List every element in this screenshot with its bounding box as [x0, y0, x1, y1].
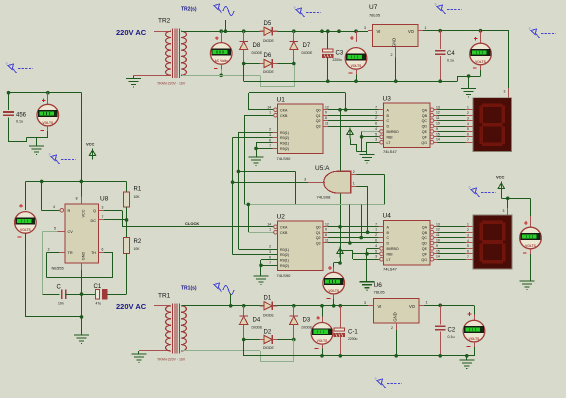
svg-text:7: 7	[375, 222, 377, 226]
svg-text:?: ?	[469, 186, 471, 190]
svg-text:2: 2	[391, 326, 393, 330]
svg-text:2: 2	[375, 116, 377, 120]
svg-text:4: 4	[375, 127, 377, 131]
svg-text:5: 5	[467, 244, 469, 248]
wire CKB down to mid bus	[244, 115, 273, 117]
svg-text:QD: QD	[422, 125, 428, 129]
svg-text:D: D	[387, 242, 390, 246]
probe right mid	[471, 188, 480, 197]
capacitor C2	[438, 304, 442, 308]
svg-text:QC: QC	[422, 236, 428, 240]
svg-text:7: 7	[467, 255, 469, 259]
svg-text:VOLTS: VOLTS	[525, 244, 537, 248]
wire D-line vertical	[349, 204, 351, 243]
probe top-right 1	[437, 5, 446, 14]
wire centre ground drop	[81, 294, 83, 335]
svg-text:7: 7	[102, 215, 104, 219]
wire U2.Q to U4 inputs	[328, 226, 379, 228]
svg-text:9: 9	[325, 228, 327, 232]
svg-text:4: 4	[467, 122, 469, 126]
svg-text:D5: D5	[264, 21, 272, 27]
diode D7	[292, 29, 296, 33]
wire U6 output	[424, 305, 474, 307]
svg-text:R9(2): R9(2)	[280, 147, 289, 151]
wire 555 DC pin	[99, 219, 105, 221]
wire C-line vertical	[361, 204, 363, 237]
resistor R1	[126, 181, 128, 192]
svg-text:1: 1	[353, 181, 355, 185]
svg-text:CV: CV	[68, 230, 74, 234]
svg-text:C2: C2	[448, 328, 456, 334]
svg-text:TH: TH	[91, 251, 96, 255]
svg-text:10: 10	[436, 122, 440, 126]
svg-text:4: 4	[375, 244, 377, 248]
svg-text:456: 456	[16, 113, 27, 119]
svg-text:11: 11	[325, 239, 329, 243]
svg-text:2: 2	[467, 111, 469, 115]
svg-text:74LS08: 74LS08	[317, 195, 332, 200]
svg-text:6: 6	[269, 139, 271, 143]
svg-text:4: 4	[467, 239, 469, 243]
wire step to D6-D7 junction	[260, 75, 262, 87]
svg-text:6: 6	[467, 250, 469, 254]
wire TR1 secondary bottom step	[182, 350, 260, 352]
svg-text:R9(1): R9(1)	[280, 259, 289, 263]
diode D8	[242, 29, 246, 33]
diode D6	[244, 63, 260, 65]
svg-text:QC: QC	[422, 119, 428, 123]
svg-text:VI: VI	[378, 304, 382, 309]
voltmeter mid (U6 input)	[328, 266, 332, 270]
diode D4	[242, 304, 246, 308]
wire U2 R0(1)	[238, 171, 240, 249]
wire TR1 secondary top rail	[182, 305, 368, 307]
svg-text:D2: D2	[264, 329, 272, 335]
svg-text:CLOCK: CLOCK	[185, 221, 199, 226]
svg-text:C-1: C-1	[348, 330, 358, 336]
svg-text:14: 14	[436, 138, 440, 142]
svg-text:DIODE: DIODE	[263, 70, 274, 74]
svg-text:Q3: Q3	[316, 125, 321, 129]
ground U6 area	[360, 282, 375, 291]
svg-text:TR1: TR1	[158, 293, 171, 300]
svg-text:220V AC: 220V AC	[116, 28, 147, 37]
svg-text:?: ?	[375, 377, 377, 381]
svg-text:QA: QA	[422, 225, 428, 229]
svg-text:QE: QE	[422, 247, 428, 251]
capacitor 456	[8, 93, 10, 110]
wire 555 reset pin	[41, 181, 43, 210]
wire CLOCK net	[122, 226, 273, 228]
svg-text:TRAN-220V - 16V: TRAN-220V - 16V	[157, 357, 186, 361]
svg-text:VOLTS: VOLTS	[351, 64, 363, 68]
svg-text:Q: Q	[93, 209, 96, 213]
svg-text:Q2: Q2	[316, 119, 321, 123]
voltmeter bottom-right	[474, 305, 476, 314]
svg-text:U5:A: U5:A	[315, 165, 330, 172]
regulator U6 78L05	[374, 299, 420, 324]
svg-text:VOLTS: VOLTS	[469, 337, 481, 341]
svg-text:R0(1): R0(1)	[280, 248, 289, 252]
svg-text:1: 1	[467, 106, 469, 110]
svg-text:D1: D1	[264, 296, 272, 302]
svg-text:1: 1	[467, 223, 469, 227]
wire long vertical Q0 column	[340, 110, 342, 263]
svg-text:QF: QF	[422, 252, 428, 256]
svg-text:15: 15	[436, 249, 440, 253]
voltmeter left edge	[19, 204, 23, 208]
wire 555 GND pin	[81, 263, 83, 270]
svg-text:2: 2	[375, 233, 377, 237]
svg-text:DIODE: DIODE	[263, 346, 274, 350]
ground 555 section	[74, 335, 89, 344]
svg-text:D3: D3	[303, 318, 311, 324]
svg-text:Q3: Q3	[316, 242, 321, 246]
svg-text:QD: QD	[422, 242, 428, 246]
wire CKA feedback	[249, 109, 273, 111]
svg-text:10K: 10K	[134, 247, 141, 251]
svg-text:?: ?	[49, 153, 51, 157]
wire 555 TH pin	[99, 252, 105, 254]
svg-text:U1: U1	[277, 97, 286, 104]
probe stub TR1	[230, 293, 232, 306]
svg-text:1: 1	[269, 111, 271, 115]
svg-text:13: 13	[436, 105, 440, 109]
wire gate input2 loop	[357, 174, 385, 176]
wire arrow column to meter net	[338, 261, 342, 265]
ground U1 R9	[249, 157, 264, 166]
svg-text:CKB: CKB	[280, 231, 288, 235]
power arrow U3 BI/RBO	[347, 128, 353, 139]
wire vertical to 555 VCC	[81, 93, 83, 182]
svg-text:2: 2	[48, 247, 50, 251]
svg-text:78L05: 78L05	[369, 13, 381, 18]
svg-text:VCC: VCC	[82, 209, 86, 217]
svg-text:15: 15	[436, 132, 440, 136]
voltmeter right of display2	[530, 216, 532, 227]
svg-text:U3: U3	[383, 96, 392, 103]
svg-text:U2: U2	[277, 214, 286, 221]
voltmeter top-left	[47, 93, 49, 105]
probe top-left	[8, 64, 17, 73]
wire bus to U2 CKB	[248, 204, 250, 232]
wire 555 Q output	[99, 210, 105, 212]
svg-text:3: 3	[364, 301, 366, 305]
svg-text:11: 11	[436, 233, 440, 237]
wire VCC to meter right	[530, 198, 532, 216]
wire U4 LT zigzag to VCC arrow	[353, 259, 379, 261]
svg-text:TR2(s): TR2(s)	[181, 7, 197, 13]
wire timing cap rail	[43, 294, 60, 296]
diode D1	[264, 302, 272, 310]
svg-text:2: 2	[467, 228, 469, 232]
svg-text:6: 6	[375, 239, 377, 243]
svg-text:VOLTS: VOLTS	[42, 121, 54, 125]
svg-text:D7: D7	[303, 43, 311, 49]
svg-text:3: 3	[375, 255, 377, 259]
svg-text:GND: GND	[392, 38, 397, 47]
svg-text:Q1: Q1	[316, 114, 321, 118]
svg-text:7: 7	[269, 144, 271, 148]
svg-text:3: 3	[364, 26, 366, 30]
svg-text:R0(1): R0(1)	[280, 131, 289, 135]
svg-text:5: 5	[54, 226, 56, 230]
svg-text:AC Volts: AC Volts	[214, 59, 228, 63]
wire negative rail bottom section	[243, 340, 245, 356]
svg-text:R2: R2	[134, 239, 142, 245]
svg-text:3: 3	[269, 133, 271, 137]
svg-text:8: 8	[325, 233, 327, 237]
capacitor C3	[326, 29, 330, 33]
wire to left meter	[25, 181, 27, 210]
svg-text:CKA: CKA	[280, 108, 288, 112]
voltmeter top-right	[479, 29, 483, 33]
svg-text:Q0: Q0	[316, 108, 321, 112]
diode D5	[264, 27, 272, 35]
svg-text:TR1(s): TR1(s)	[181, 286, 197, 292]
svg-text:14: 14	[267, 222, 271, 226]
svg-text:R9(2): R9(2)	[280, 264, 289, 268]
wire VCC to display 2	[501, 193, 503, 199]
wire U4 BI/RBO cluster	[367, 248, 379, 250]
svg-text:7: 7	[375, 105, 377, 109]
svg-text:DIODE: DIODE	[252, 326, 263, 330]
voltmeter across C-1	[320, 304, 324, 308]
svg-text:0.1u: 0.1u	[447, 59, 454, 63]
svg-text:RBI: RBI	[387, 135, 393, 139]
svg-text:DIODE: DIODE	[252, 51, 263, 55]
svg-text:VOLTS: VOLTS	[328, 289, 340, 293]
svg-text:QB: QB	[422, 231, 428, 235]
svg-text:C3: C3	[336, 51, 344, 57]
svg-text:U4: U4	[383, 213, 392, 220]
svg-text:10n: 10n	[58, 302, 64, 306]
svg-text:Q0: Q0	[316, 225, 321, 229]
svg-text:CKA: CKA	[280, 225, 288, 229]
svg-text:220V AC: 220V AC	[116, 302, 147, 311]
diode D3	[292, 304, 296, 308]
svg-text:D4: D4	[253, 318, 261, 324]
wire U1.Q to U3 inputs	[328, 109, 379, 111]
svg-text:DIODE: DIODE	[302, 326, 313, 330]
svg-text:D: D	[387, 125, 390, 129]
svg-text:DIODE: DIODE	[302, 51, 313, 55]
svg-text:9: 9	[436, 244, 438, 248]
svg-text:QF: QF	[422, 135, 428, 139]
wire 555 TR pin	[59, 252, 65, 254]
svg-text:1: 1	[375, 111, 377, 115]
svg-text:U6: U6	[374, 282, 383, 289]
wire U2 R0(2)	[233, 254, 278, 256]
svg-text:3: 3	[269, 250, 271, 254]
power arrow U4	[337, 247, 343, 258]
wire mid horizontal bus	[244, 204, 384, 206]
svg-text:C: C	[387, 236, 390, 240]
svg-text:QA: QA	[422, 108, 428, 112]
ground TR2 primary	[133, 75, 135, 78]
capacitor C1 47u	[96, 289, 100, 298]
wire 555 VCC pin	[81, 181, 83, 196]
svg-text:VOLTS: VOLTS	[20, 228, 32, 232]
probe bottom-mid	[377, 379, 386, 388]
svg-text:78L05: 78L05	[374, 290, 386, 295]
probe stub TR2(s)	[225, 20, 227, 31]
resistor R2	[126, 207, 128, 237]
svg-text:3: 3	[467, 233, 469, 237]
svg-text:C: C	[387, 119, 390, 123]
wire R0(2) net	[233, 137, 273, 139]
svg-text:6: 6	[269, 255, 271, 259]
wire step to rail	[457, 76, 459, 81]
wire VCC top-left rail	[9, 92, 82, 94]
svg-text:10K: 10K	[134, 195, 141, 199]
svg-text:12: 12	[325, 105, 329, 109]
svg-text:QE: QE	[422, 130, 428, 134]
svg-text:7: 7	[467, 138, 469, 142]
wire R9 pins to ground	[256, 142, 273, 144]
svg-text:6: 6	[375, 122, 377, 126]
svg-text:3: 3	[504, 90, 506, 94]
wire gate output to left bus	[233, 182, 308, 184]
wire U7 output	[423, 30, 509, 32]
svg-text:11: 11	[436, 116, 440, 120]
svg-text:BI/RBO: BI/RBO	[387, 130, 399, 134]
wire U3 outputs to display 1	[438, 109, 466, 111]
svg-text:Q1: Q1	[316, 231, 321, 235]
ground U2 R9	[254, 276, 269, 285]
svg-text:5: 5	[375, 249, 377, 253]
svg-text:VOLTS: VOLTS	[475, 60, 487, 64]
wire R0(1) net	[238, 132, 272, 134]
7-segment display 1	[473, 98, 512, 152]
svg-text:6: 6	[102, 247, 104, 251]
ground right meter	[520, 281, 535, 290]
svg-text:U8: U8	[100, 196, 109, 203]
svg-text:2: 2	[391, 53, 393, 57]
svg-text:?: ?	[529, 27, 531, 31]
svg-text:3: 3	[467, 116, 469, 120]
svg-text:GND: GND	[393, 312, 398, 321]
svg-text:VO: VO	[409, 304, 416, 309]
svg-text:3: 3	[304, 177, 306, 181]
probe above bridge	[296, 8, 305, 17]
svg-text:10: 10	[436, 239, 440, 243]
svg-text:0.1u: 0.1u	[16, 120, 23, 124]
svg-text:12: 12	[436, 228, 440, 232]
svg-text:74LS47: 74LS47	[383, 267, 398, 272]
wire cap bottom to ground	[9, 141, 27, 143]
svg-text:BI/RBO: BI/RBO	[387, 247, 399, 251]
svg-text:VCC: VCC	[496, 174, 505, 179]
svg-text:3: 3	[375, 138, 377, 142]
svg-text:2: 2	[269, 128, 271, 132]
svg-text:C1: C1	[94, 284, 102, 290]
svg-text:14: 14	[267, 105, 271, 109]
svg-text:2200u: 2200u	[348, 337, 358, 341]
7-segment display 2	[473, 215, 512, 269]
svg-text:GND: GND	[82, 252, 86, 261]
svg-text:QG: QG	[421, 141, 427, 145]
svg-text:0.1u: 0.1u	[448, 335, 455, 339]
svg-text:74LS90: 74LS90	[277, 156, 292, 161]
svg-text:6: 6	[467, 133, 469, 137]
voltmeter after C3	[354, 29, 358, 33]
wire 555 CV pin	[57, 231, 65, 233]
wire U3 LT to ground	[367, 142, 379, 144]
capacitor C-1	[339, 304, 343, 308]
wire U4 outputs to display 2	[438, 226, 466, 228]
ground bottom rail	[466, 356, 468, 360]
ground top-left meter	[36, 138, 38, 147]
wire U2 CKB from bus	[248, 232, 273, 234]
svg-text:TRAN-220V - 16V: TRAN-220V - 16V	[157, 81, 186, 85]
svg-text:CKB: CKB	[280, 114, 288, 118]
svg-text:D8: D8	[253, 43, 261, 49]
svg-text:13: 13	[436, 222, 440, 226]
svg-text:TR: TR	[68, 251, 73, 255]
svg-text:VCC: VCC	[86, 141, 95, 146]
svg-text:QG: QG	[421, 258, 427, 262]
svg-text:D6: D6	[264, 53, 272, 59]
svg-text:4: 4	[53, 205, 55, 209]
capacitor C 10n	[61, 289, 63, 298]
probe top-right 2	[531, 29, 540, 38]
probe mid-left	[51, 155, 60, 164]
svg-text:C4: C4	[447, 51, 455, 57]
svg-text:RBI: RBI	[387, 252, 393, 256]
svg-text:5: 5	[375, 132, 377, 136]
svg-text:NE555: NE555	[52, 266, 65, 271]
svg-text:VO: VO	[408, 29, 415, 34]
svg-text:Q2: Q2	[316, 236, 321, 240]
svg-text:3: 3	[503, 209, 505, 213]
svg-text:74LS47: 74LS47	[383, 149, 398, 154]
svg-text:VOLTS: VOLTS	[317, 339, 329, 343]
svg-text:1: 1	[375, 228, 377, 232]
svg-text:2200u: 2200u	[333, 58, 343, 62]
svg-text:?: ?	[294, 6, 296, 10]
wire U2 R9 ground	[261, 259, 278, 261]
svg-text:11: 11	[325, 122, 329, 126]
wire negative rail top section	[243, 64, 245, 82]
svg-text:R1: R1	[134, 187, 142, 193]
diode D2	[244, 339, 260, 341]
wire R2 bottom to timing caps	[126, 254, 128, 295]
svg-text:14: 14	[436, 255, 440, 259]
svg-text:8: 8	[76, 197, 78, 201]
svg-text:U7: U7	[369, 4, 378, 11]
svg-text:R0(2): R0(2)	[280, 253, 289, 257]
svg-text:1: 1	[426, 300, 428, 304]
svg-text:47u: 47u	[96, 302, 102, 306]
svg-text:9: 9	[436, 127, 438, 131]
svg-text:?: ?	[6, 62, 8, 66]
svg-text:74LS90: 74LS90	[277, 273, 292, 278]
svg-text:VI: VI	[377, 29, 381, 34]
svg-text:R0(2): R0(2)	[280, 136, 289, 140]
svg-text:9: 9	[325, 111, 327, 115]
svg-text:R: R	[68, 209, 71, 213]
wire TR2 secondary bottom	[182, 75, 260, 77]
svg-text:DIODE: DIODE	[263, 313, 274, 317]
svg-text:12: 12	[436, 111, 440, 115]
wire gate input1 down	[357, 186, 368, 188]
capacitor C4	[438, 29, 442, 33]
svg-text:?: ?	[435, 3, 437, 7]
svg-text:R9(1): R9(1)	[280, 142, 289, 146]
ground U3	[360, 155, 375, 164]
svg-text:1: 1	[425, 26, 427, 30]
